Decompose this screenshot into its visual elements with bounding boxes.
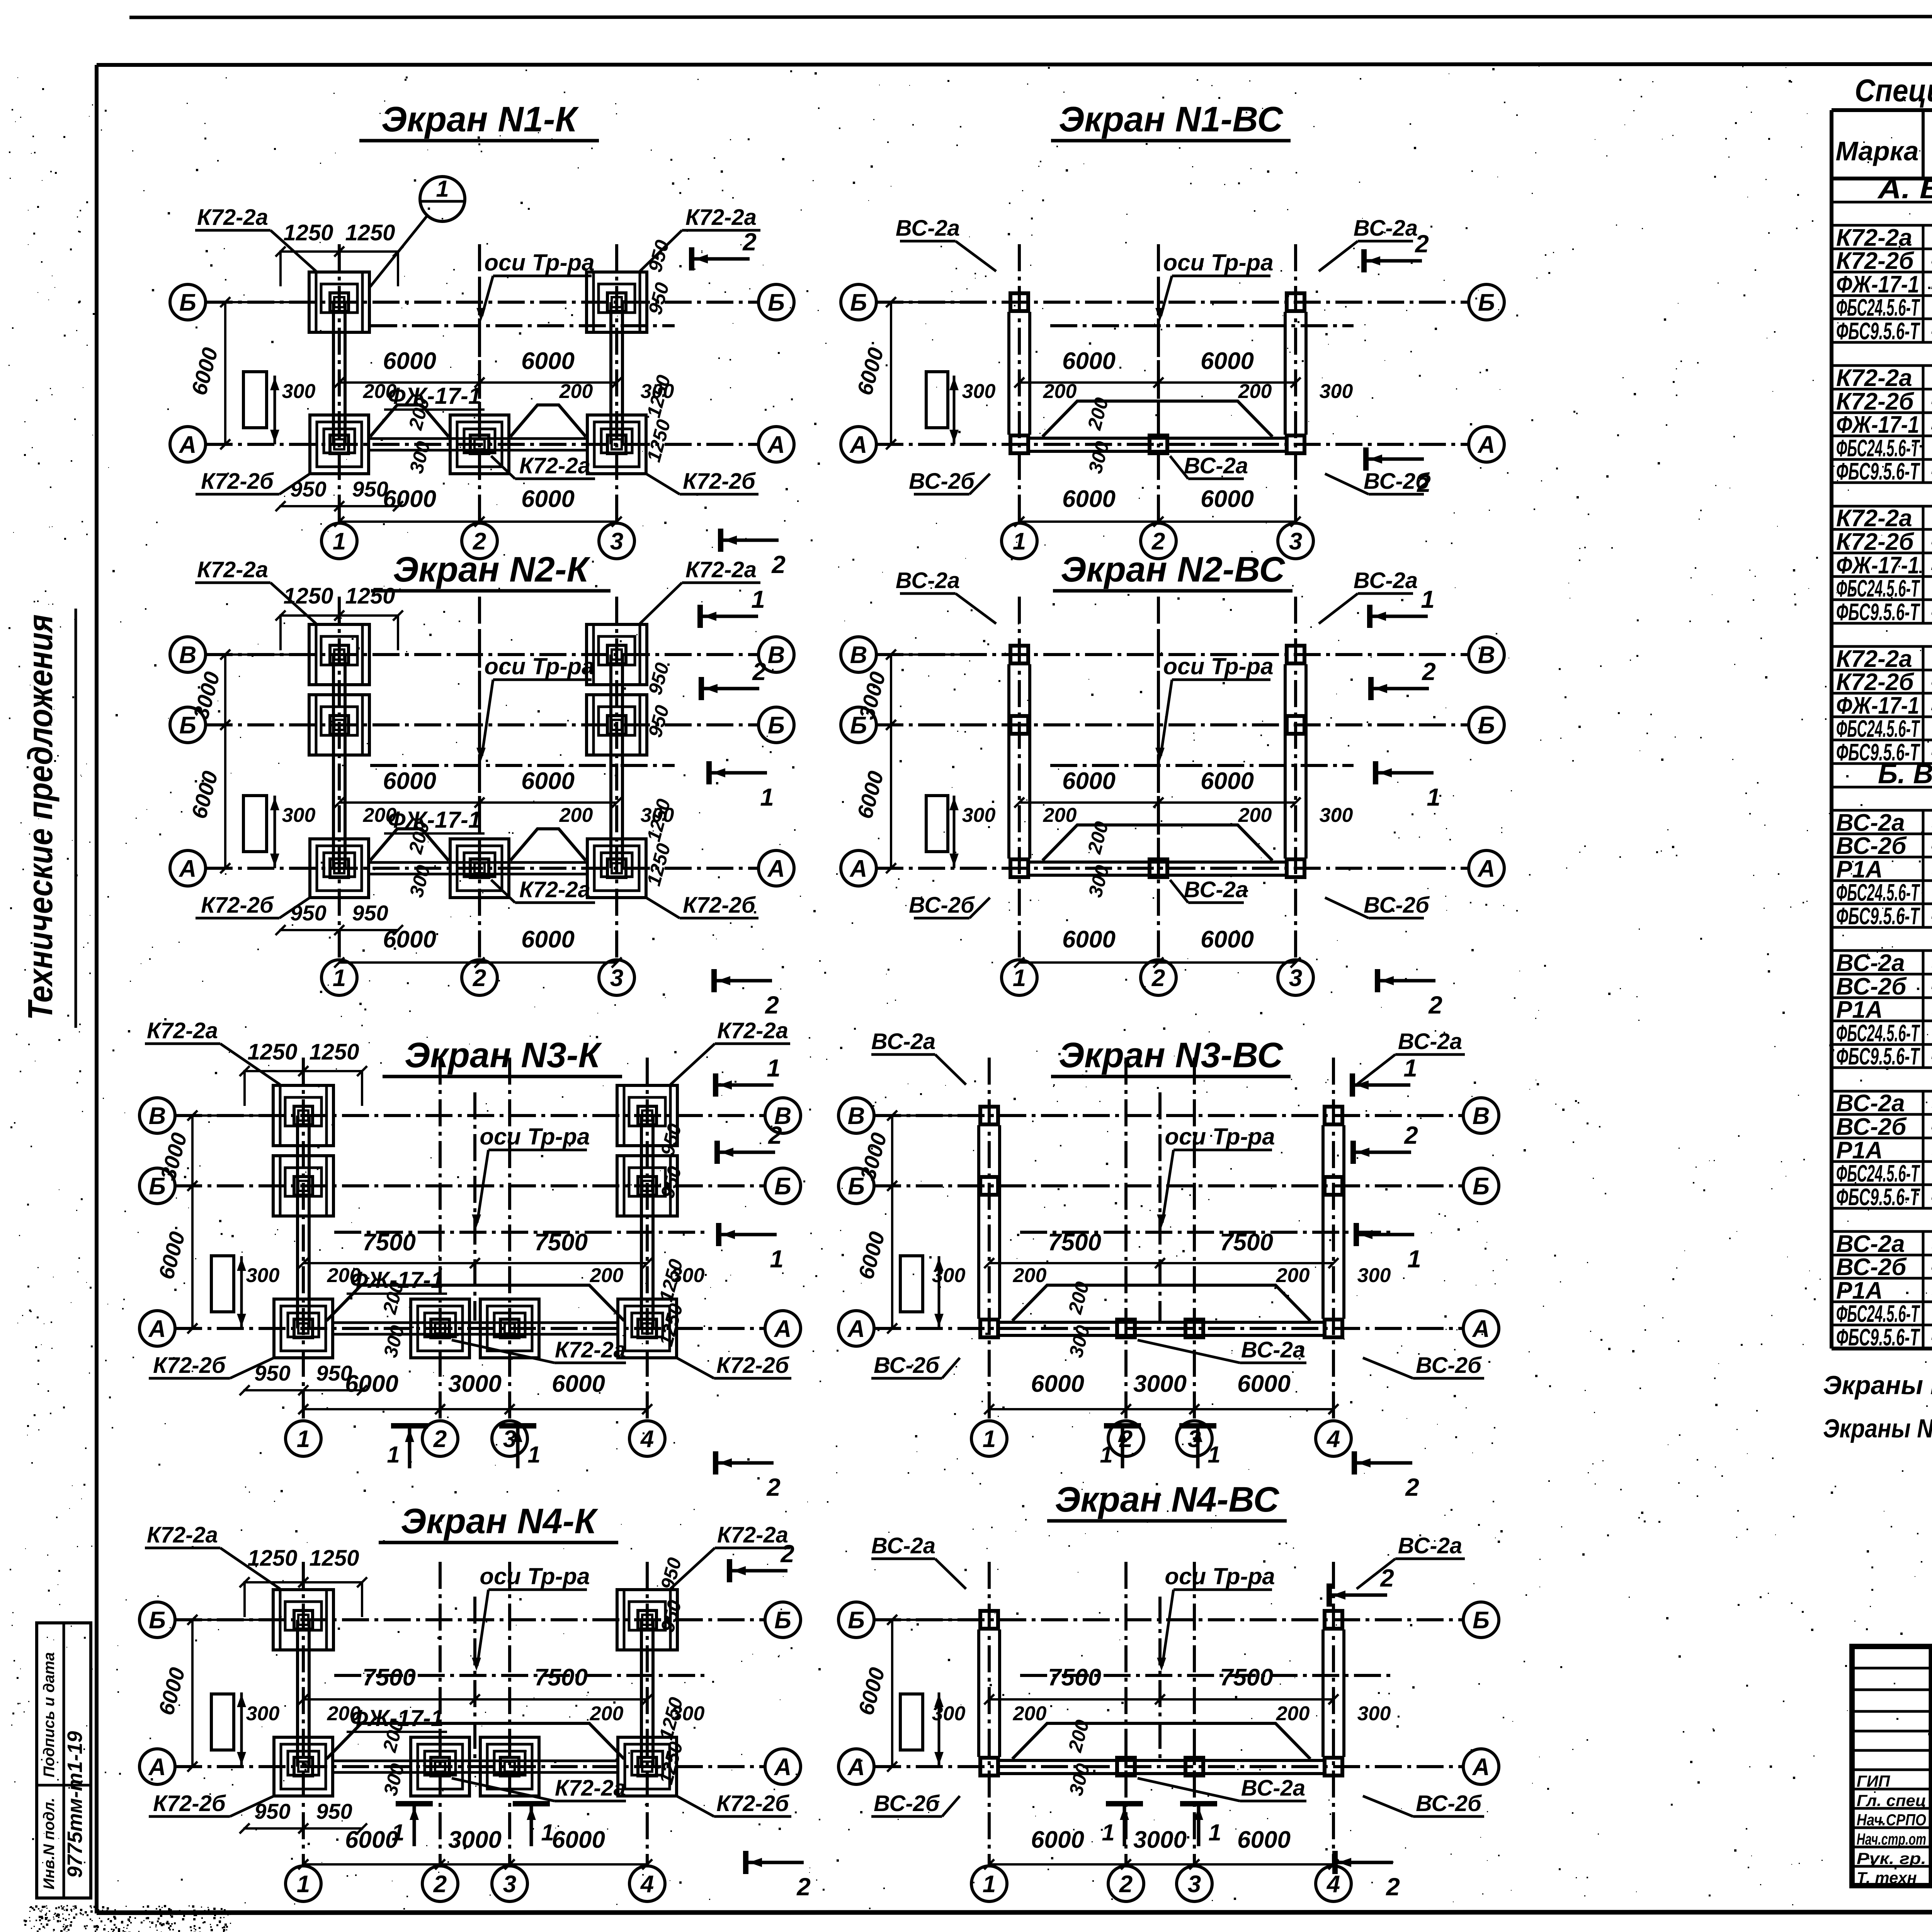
svg-text:2: 2	[742, 228, 757, 256]
svg-text:3: 3	[610, 965, 623, 992]
svg-text:Б: Б	[179, 289, 196, 316]
row ФЖ-17-1 (3-К)	[1832, 575, 1932, 578]
svg-text:7500: 7500	[1048, 1229, 1101, 1256]
svg-text:ФБС9.5.6-Т: ФБС9.5.6-Т	[1836, 599, 1920, 626]
svg-text:6000: 6000	[521, 486, 575, 512]
row ВС-2а (1-ВС)	[1832, 833, 1932, 835]
stand ВС-2 square at А/1	[980, 1320, 998, 1337]
label ВС-2а bottom-middle	[1170, 877, 1248, 903]
middle span dimension line	[1019, 801, 1296, 804]
svg-text:Рук. гр.: Рук. гр.	[1857, 1849, 1926, 1867]
svg-text:В: В	[848, 1103, 865, 1129]
left dimension line 6000/3000	[890, 302, 892, 444]
svg-text:300: 300	[282, 804, 316, 827]
svg-text:200: 200	[1276, 1702, 1310, 1725]
svg-text:1: 1	[1207, 1442, 1220, 1468]
axis Б line	[175, 1184, 765, 1187]
label ВС-2а top-right	[1357, 1029, 1465, 1085]
svg-text:6000: 6000	[383, 348, 436, 374]
bottom span dimension line	[1019, 961, 1296, 964]
vertical stand strips ВС-2	[977, 1629, 980, 1757]
svg-text:Р1А: Р1А	[1836, 997, 1883, 1023]
section mark 1 (up)	[513, 1804, 554, 1846]
svg-text:3: 3	[610, 528, 623, 555]
label К72-2а top-left	[195, 205, 316, 271]
row ФБС9.5.6-Т (3-ВС)	[1832, 1207, 1932, 1210]
svg-text:4: 4	[640, 1871, 654, 1898]
label К72-2а top-right	[640, 557, 760, 624]
svg-text:ФЖ-17-1: ФЖ-17-1	[1836, 412, 1919, 438]
bottom span dimension line	[303, 1408, 647, 1410]
table section Экран N3-К	[1832, 505, 1932, 508]
svg-text:300: 300	[1357, 1702, 1391, 1725]
row ФБС9.5.6-Т (3-К)	[1832, 622, 1932, 625]
svg-text:Б: Б	[1473, 1607, 1490, 1634]
svg-text:4: 4	[640, 1426, 654, 1452]
svg-text:2: 2	[1417, 469, 1431, 497]
svg-text:2: 2	[1422, 658, 1436, 685]
svg-text:2: 2	[1415, 230, 1429, 258]
column K72-2 at А/1	[274, 1737, 333, 1796]
section mark 2	[714, 969, 779, 1019]
svg-text:А: А	[1477, 855, 1495, 882]
svg-text:1: 1	[983, 1871, 996, 1898]
row Р1А (4-ВС)	[1832, 1301, 1932, 1303]
row ФБС9.5.6-Т (4-ВС)	[1832, 1347, 1932, 1350]
svg-text:6000: 6000	[1201, 926, 1254, 953]
ось Тр-ра vertical chain	[1158, 1092, 1162, 1321]
svg-text:К72-2б: К72-2б	[201, 893, 274, 918]
svg-text:ВС-2б: ВС-2б	[874, 1353, 940, 1378]
ось Тр-ра vertical chain	[1158, 1597, 1162, 1759]
row ВС-2а (4-ВС)	[1832, 1254, 1932, 1257]
svg-text:оси Тр-ра: оси Тр-ра	[1163, 653, 1273, 679]
stand ВС-2 square at Б/1	[1010, 293, 1028, 311]
label К72-2б bottom-left	[149, 1791, 274, 1816]
axis А circle right	[1469, 427, 1504, 462]
column K72-2 at А/2	[450, 415, 509, 474]
svg-text:ФЖ-17-1: ФЖ-17-1	[388, 807, 481, 833]
svg-text:оси Тр-ра: оси Тр-ра	[480, 1124, 590, 1150]
label ВС-2б bottom-right	[1325, 893, 1430, 918]
stand ВС-2 square at А/4	[1325, 1320, 1342, 1337]
svg-text:ВС-2б: ВС-2б	[909, 893, 975, 918]
svg-text:950: 950	[316, 1361, 352, 1385]
svg-text:А: А	[148, 1754, 166, 1781]
grid line 3	[615, 597, 618, 960]
stand ВС-2 square at А/3	[1287, 859, 1304, 877]
svg-text:К72-2а: К72-2а	[555, 1337, 626, 1362]
svg-text:3: 3	[1289, 528, 1302, 555]
grid line 3	[1193, 1562, 1196, 1866]
section mark 1	[1356, 1223, 1421, 1273]
grid line 3	[1294, 597, 1297, 960]
row ФБС24.5.6-Т (3-К)	[1832, 599, 1932, 601]
grid circle 1	[1002, 523, 1037, 559]
svg-text:1: 1	[1013, 528, 1026, 555]
svg-text:ФБС24.5.6-Т: ФБС24.5.6-Т	[1836, 575, 1920, 602]
section mark 2	[1353, 1121, 1418, 1164]
grid line 2	[1124, 1562, 1128, 1866]
horizontal foundation strip along А	[333, 1760, 618, 1762]
section mark 1	[709, 761, 774, 811]
grid circle 1	[1002, 960, 1037, 995]
grid circle 1	[321, 960, 357, 995]
label К72-2б bottom-left	[196, 893, 310, 918]
svg-text:6000: 6000	[345, 1371, 398, 1397]
svg-text:К72-2б: К72-2б	[683, 893, 756, 918]
svg-text:ВС-2а: ВС-2а	[871, 1029, 935, 1054]
label К72-2б bottom-right	[646, 469, 759, 494]
column K72-2a at Б/1	[273, 1590, 333, 1650]
stand ВС-2 square at В/1	[980, 1107, 998, 1124]
grid line 3	[1193, 1058, 1196, 1421]
svg-text:Экран N2-ВС: Экран N2-ВС	[1061, 550, 1286, 589]
svg-text:950: 950	[316, 1799, 352, 1823]
label ВС-2а top-right	[1357, 1533, 1465, 1589]
foundation band ФЖ outline	[1043, 401, 1272, 437]
stand ВС-2 square at Б/1	[980, 1177, 998, 1195]
svg-text:Б: Б	[1473, 1173, 1490, 1200]
svg-text:К72-2б: К72-2б	[716, 1791, 790, 1816]
svg-text:200: 200	[1013, 1264, 1047, 1287]
left margin stamp box	[37, 1623, 91, 1898]
sheet outer top trim line	[129, 16, 1932, 17]
svg-text:1: 1	[1421, 585, 1435, 613]
section mark 2	[701, 658, 766, 700]
section mark 2	[717, 1121, 782, 1164]
grid line 2	[1124, 1058, 1128, 1421]
grid circle 3	[599, 960, 634, 995]
grid line 2	[439, 1562, 442, 1866]
svg-text:7500: 7500	[362, 1229, 416, 1256]
axis Б circle left	[139, 1602, 175, 1638]
axis А circle right	[759, 427, 794, 462]
stand ВС-2 square at Б/4	[1325, 1177, 1342, 1195]
stand ВС-2 square at А/1	[1010, 859, 1028, 877]
column K72-2 at А/1	[274, 1299, 333, 1358]
middle span dimension line	[989, 1698, 1333, 1701]
transformer rectangle	[900, 1256, 923, 1312]
column K72-2a at Б/4	[617, 1590, 677, 1650]
label ВС-2а top-right	[1319, 216, 1418, 271]
svg-text:3000: 3000	[1133, 1371, 1187, 1397]
svg-text:Б: Б	[1478, 289, 1495, 316]
svg-text:1250: 1250	[309, 1546, 359, 1571]
svg-text:200: 200	[590, 1264, 624, 1287]
ось Тр-ра vertical chain	[1157, 631, 1160, 861]
svg-text:Экран N1-ВС: Экран N1-ВС	[1059, 100, 1284, 139]
grid line 2	[478, 597, 481, 960]
svg-text:ФЖ-17-1: ФЖ-17-1	[1836, 271, 1919, 298]
grid circle 1	[321, 523, 357, 559]
svg-text:9775тм-т1-19: 9775тм-т1-19	[63, 1731, 87, 1878]
horizontal strip along А	[1029, 437, 1286, 440]
grid line 3	[508, 1562, 511, 1866]
grid circle 3	[492, 1421, 527, 1456]
section mark 1	[716, 1054, 781, 1097]
vertical column strips	[296, 1620, 299, 1767]
axis А circle left	[170, 427, 206, 462]
svg-text:К72-2а: К72-2а	[519, 453, 590, 478]
svg-text:ФБС9.5.6-Т: ФБС9.5.6-Т	[1836, 1324, 1920, 1351]
grid line 2	[478, 244, 481, 523]
grid circle 2	[1141, 960, 1176, 995]
svg-text:ФБС24.5.6-Т: ФБС24.5.6-Т	[1836, 1020, 1920, 1047]
svg-text:Б: Б	[774, 1173, 791, 1200]
svg-text:ФБС9.5.6-Т: ФБС9.5.6-Т	[1836, 1043, 1920, 1070]
row К72-2б (2-К)	[1832, 412, 1932, 414]
label К72-2б bottom-right	[677, 1791, 791, 1816]
svg-text:ВС-2б: ВС-2б	[1416, 1353, 1482, 1378]
axis В circle right	[1463, 1098, 1499, 1133]
row ВС-2б (4-ВС)	[1832, 1277, 1932, 1280]
label ВС-2б bottom-left	[909, 893, 990, 918]
middle span dimension line	[303, 1262, 647, 1264]
row ФЖ-17-1 (4-К)	[1832, 716, 1932, 718]
transformer rectangle	[926, 372, 948, 428]
axis А circle left	[170, 850, 206, 886]
ось Тр-ра horizontal chain	[1050, 324, 1354, 327]
svg-text:К72-2а: К72-2а	[147, 1522, 218, 1548]
svg-text:6000: 6000	[383, 486, 436, 512]
row Р1А (1-ВС)	[1832, 879, 1932, 882]
svg-text:ФЖ-17-1: ФЖ-17-1	[1836, 552, 1919, 579]
row ФБС24.5.6-Т (1-ВС)	[1832, 903, 1932, 905]
svg-text:Подпись и дата: Подпись и дата	[41, 1652, 58, 1777]
svg-text:200: 200	[559, 804, 593, 827]
inner vertical dimension	[938, 1692, 940, 1767]
column K72-2 at А/1	[310, 839, 369, 898]
row Р1А (2-ВС)	[1832, 1020, 1932, 1022]
svg-text:950: 950	[290, 901, 326, 925]
left dimension line 6000/3000	[191, 1620, 194, 1767]
svg-text:300: 300	[932, 1264, 966, 1287]
svg-text:Экран N2-К: Экран N2-К	[393, 550, 590, 589]
svg-text:оси Тр-ра: оси Тр-ра	[1165, 1124, 1275, 1150]
svg-text:ВС-2а: ВС-2а	[1398, 1533, 1462, 1558]
grid circle 1	[286, 1421, 321, 1456]
top dimension 1250 1250	[243, 1581, 363, 1583]
section mark 1	[1370, 585, 1435, 628]
svg-text:А: А	[179, 432, 197, 458]
svg-text:6000: 6000	[1062, 926, 1116, 953]
svg-text:1250: 1250	[345, 220, 395, 245]
section mark 2	[730, 1540, 794, 1582]
label К72-2б bottom-right	[677, 1353, 791, 1378]
axis В circle right	[759, 637, 794, 672]
axis А circle right	[765, 1311, 801, 1346]
table section Экран N4-ВС	[1832, 1230, 1932, 1233]
row ФБС9.5.6-Т (1-К)	[1832, 341, 1932, 344]
grid line 4	[1332, 1562, 1335, 1866]
svg-text:К72-2б: К72-2б	[683, 469, 756, 494]
svg-text:В: В	[1473, 1103, 1490, 1129]
top dimension 1250 1250	[279, 614, 399, 617]
column K72-2a at Б/3	[587, 272, 647, 332]
middle span dimension line	[339, 801, 617, 804]
svg-text:200: 200	[1043, 804, 1077, 827]
column K72-2 at А/2	[411, 1299, 469, 1358]
svg-text:1250: 1250	[247, 1039, 297, 1065]
svg-text:А: А	[1477, 432, 1495, 458]
ось Тр-ра vertical chain	[478, 279, 481, 437]
grid circle 3	[1278, 960, 1313, 995]
transformer rectangle	[243, 796, 267, 852]
axis Б line	[206, 301, 759, 304]
label ВС-2а top-left	[896, 568, 996, 624]
transformer rectangle	[211, 1256, 234, 1312]
svg-text:300: 300	[246, 1702, 280, 1725]
label К72-2а top-left	[145, 1522, 280, 1589]
svg-text:А: А	[1472, 1754, 1490, 1781]
svg-text:7500: 7500	[1048, 1664, 1101, 1691]
grid line 4	[646, 1058, 649, 1421]
svg-text:1: 1	[760, 783, 774, 811]
column K72-2a at Б/4	[617, 1156, 677, 1216]
svg-text:ГИП: ГИП	[1857, 1772, 1890, 1790]
svg-text:ФЖ-17-1: ФЖ-17-1	[350, 1705, 444, 1731]
column K72-2a at В/1	[309, 624, 369, 685]
svg-text:ВС-2а: ВС-2а	[1354, 216, 1418, 241]
svg-text:Р1А: Р1А	[1836, 1137, 1883, 1164]
column K72-2a at В/1	[273, 1085, 333, 1146]
svg-text:6000: 6000	[1062, 768, 1116, 794]
svg-text:ВС-2а: ВС-2а	[1241, 1337, 1305, 1362]
foundation band ФЖ outline	[327, 1723, 624, 1759]
svg-text:300: 300	[1320, 380, 1353, 403]
svg-text:2: 2	[1386, 1873, 1400, 1901]
title block frame	[1852, 1646, 1932, 1886]
row ФБС24.5.6-Т (4-К)	[1832, 739, 1932, 742]
svg-text:1: 1	[333, 965, 346, 992]
axis А line	[206, 867, 759, 870]
svg-text:950: 950	[352, 477, 388, 501]
svg-text:Экран N3-ВС: Экран N3-ВС	[1059, 1036, 1284, 1075]
svg-text:1: 1	[391, 1820, 404, 1845]
horizontal foundation strip along А	[369, 861, 587, 864]
grid circle 2	[422, 1866, 458, 1901]
stand ВС-2 square at А/3	[1287, 435, 1304, 453]
section mark 2	[1354, 1451, 1419, 1501]
stand ВС-2 square at Б/3	[1287, 293, 1304, 311]
svg-text:К72-2б: К72-2б	[1836, 669, 1914, 696]
axis А line	[206, 443, 759, 446]
row ВС-2а (3-ВС)	[1832, 1113, 1932, 1116]
svg-text:Б: Б	[768, 289, 785, 316]
grid line 1	[338, 597, 341, 960]
svg-text:6000: 6000	[552, 1827, 605, 1853]
label ВС-2б bottom-left	[871, 1791, 960, 1816]
label ВС-2а bottom-middle	[1170, 453, 1248, 479]
svg-text:Инв.N подл.: Инв.N подл.	[41, 1798, 58, 1889]
stand ВС-2 square at В/3	[1287, 646, 1304, 663]
stand ВС-2 square at Б/4	[1325, 1611, 1342, 1629]
svg-text:1: 1	[387, 1442, 400, 1468]
svg-text:1250: 1250	[247, 1546, 297, 1571]
column K72-2a at Б/3	[587, 695, 647, 755]
section mark 1 (up)	[391, 1804, 433, 1846]
svg-text:ВС-2б: ВС-2б	[1836, 833, 1907, 859]
svg-text:200: 200	[1043, 380, 1077, 403]
axis Б circle left	[139, 1168, 175, 1204]
axis Б circle right	[1469, 707, 1504, 743]
svg-text:ВС-2а: ВС-2а	[1836, 1090, 1905, 1117]
svg-text:В: В	[1478, 642, 1495, 668]
svg-text:Гл. спец: Гл. спец	[1857, 1791, 1926, 1810]
inner vertical dimension	[274, 376, 276, 444]
svg-text:оси Тр-ра: оси Тр-ра	[1163, 250, 1273, 276]
ось Тр-ра horizontal chain	[370, 764, 675, 767]
bottom span dimension line	[989, 1863, 1333, 1866]
svg-text:Б: Б	[774, 1607, 791, 1634]
row ФБС9.5.6-Т (2-К)	[1832, 481, 1932, 484]
table section Экран N3-ВС	[1832, 1090, 1932, 1093]
svg-text:Б: Б	[149, 1607, 166, 1634]
row ФБС24.5.6-Т (2-ВС)	[1832, 1043, 1932, 1046]
svg-text:К72-2а: К72-2а	[1836, 365, 1912, 391]
ось Тр-ра vertical chain	[473, 1597, 476, 1759]
label К72-2б bottom-right	[646, 893, 759, 918]
sheet inner frame	[97, 64, 1932, 65]
ось Тр-ра horizontal chain	[1020, 1231, 1391, 1234]
table section А header	[1832, 201, 1932, 204]
svg-text:200: 200	[590, 1702, 624, 1725]
title block revision columns	[1929, 1646, 1932, 1886]
axis Б line	[876, 723, 1469, 726]
svg-text:200: 200	[1238, 380, 1272, 403]
svg-text:ФБС24.5.6-Т: ФБС24.5.6-Т	[1836, 879, 1920, 906]
section mark 1	[1352, 1054, 1417, 1097]
axis Б line	[876, 301, 1469, 304]
svg-text:300: 300	[962, 380, 996, 403]
svg-text:К72-2б: К72-2б	[1836, 248, 1914, 274]
svg-text:1: 1	[1100, 1442, 1112, 1468]
grid line 3	[1294, 244, 1297, 523]
svg-text:300: 300	[1320, 804, 1353, 827]
svg-text:300: 300	[246, 1264, 280, 1287]
row К72-2б (3-К)	[1832, 552, 1932, 554]
axis А circle left	[139, 1311, 175, 1346]
inner vertical dimension	[953, 376, 956, 444]
svg-text:В: В	[850, 642, 867, 668]
label К72-2а top-right	[670, 1018, 790, 1085]
grid circle 3	[1177, 1866, 1212, 1901]
svg-text:1: 1	[767, 1054, 781, 1082]
svg-text:оси Тр-ра: оси Тр-ра	[484, 250, 594, 276]
section mark 2	[746, 1851, 811, 1901]
svg-text:К72-2а: К72-2а	[197, 205, 268, 230]
axis В circle left	[838, 1098, 874, 1133]
column K72-2a at Б/1	[309, 272, 369, 332]
grid circle 1	[971, 1866, 1007, 1901]
svg-text:2: 2	[473, 965, 486, 992]
row ВС-2б (1-ВС)	[1832, 856, 1932, 859]
svg-text:ВС-2а: ВС-2а	[1184, 453, 1248, 478]
axis В line	[874, 1114, 1463, 1117]
svg-text:К72-2б: К72-2б	[1836, 529, 1914, 555]
grid line 1	[338, 244, 341, 523]
vertical column strips	[332, 655, 335, 868]
svg-text:Р1А: Р1А	[1836, 856, 1883, 883]
svg-text:ВС-2а: ВС-2а	[1241, 1776, 1305, 1801]
left dimension line 6000/3000	[891, 1620, 893, 1767]
axis Б circle right	[765, 1602, 801, 1638]
grid line 2	[1157, 597, 1160, 960]
transformer rectangle	[243, 372, 267, 428]
horizontal foundation strip along А	[333, 1321, 618, 1324]
svg-text:ФБС24.5.6-Т: ФБС24.5.6-Т	[1836, 1301, 1920, 1327]
